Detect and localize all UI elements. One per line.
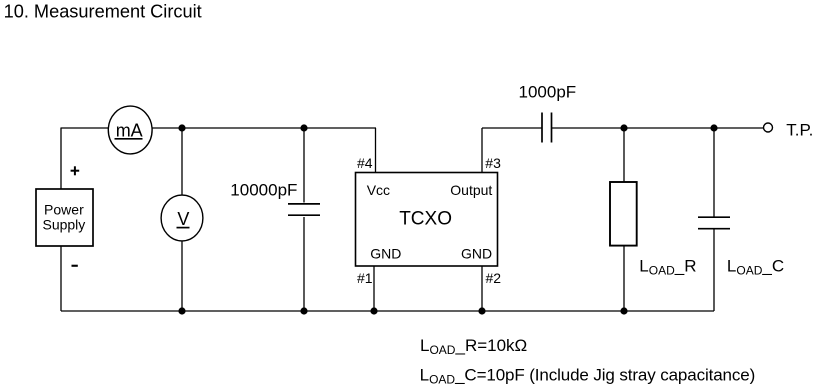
svg-text:#3: #3 bbox=[485, 155, 501, 171]
svg-text:1000pF: 1000pF bbox=[519, 83, 577, 102]
svg-text:LOAD_C=10pF (Include Jig stray: LOAD_C=10pF (Include Jig stray capacitan… bbox=[420, 366, 756, 387]
svg-text:10000pF: 10000pF bbox=[230, 180, 297, 199]
svg-text:TCXO: TCXO bbox=[399, 209, 452, 230]
svg-text:10. Measurement Circuit: 10. Measurement Circuit bbox=[4, 1, 202, 21]
svg-text:Power: Power bbox=[44, 201, 84, 217]
svg-text:Supply: Supply bbox=[42, 216, 85, 232]
svg-text:T.P.: T.P. bbox=[786, 121, 813, 140]
svg-text:#4: #4 bbox=[357, 155, 373, 171]
svg-text:GND: GND bbox=[370, 246, 401, 262]
svg-text:#1: #1 bbox=[357, 270, 373, 286]
svg-text:Output: Output bbox=[450, 182, 492, 198]
svg-text:mA: mA bbox=[116, 120, 143, 140]
svg-text:GND: GND bbox=[461, 246, 492, 262]
svg-text:V: V bbox=[177, 209, 189, 229]
svg-text:#2: #2 bbox=[486, 270, 502, 286]
svg-text:Vcc: Vcc bbox=[367, 182, 390, 198]
